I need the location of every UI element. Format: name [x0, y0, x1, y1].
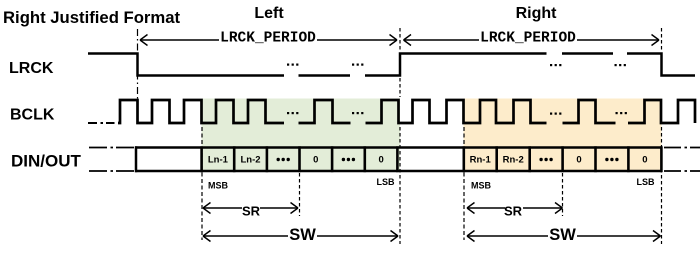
svg-text:0: 0	[313, 155, 318, 166]
svg-text:SR: SR	[242, 204, 261, 219]
svg-text:Rn-1: Rn-1	[470, 155, 492, 166]
svg-text:LSB: LSB	[637, 177, 656, 187]
svg-text:Rn-2: Rn-2	[503, 155, 524, 166]
svg-text:Right Justified Format: Right Justified Format	[3, 8, 181, 27]
svg-text:LRCK_PERIOD: LRCK_PERIOD	[220, 31, 316, 47]
svg-text:MSB: MSB	[208, 181, 229, 191]
svg-text:Ln-1: Ln-1	[208, 155, 229, 166]
svg-text:SR: SR	[504, 204, 523, 219]
svg-text:0: 0	[378, 155, 383, 166]
svg-text:Ln-2: Ln-2	[240, 155, 260, 166]
svg-text:Left: Left	[254, 5, 284, 22]
svg-text:0: 0	[576, 155, 581, 166]
svg-text:SW: SW	[289, 226, 316, 244]
svg-text:SW: SW	[549, 226, 576, 244]
svg-text:Right: Right	[516, 5, 558, 22]
svg-text:LRCK: LRCK	[9, 60, 54, 77]
svg-text:DIN/OUT: DIN/OUT	[11, 152, 82, 171]
svg-text:BCLK: BCLK	[10, 107, 55, 124]
svg-text:LRCK_PERIOD: LRCK_PERIOD	[480, 31, 576, 47]
svg-text:LSB: LSB	[377, 177, 396, 187]
svg-text:MSB: MSB	[471, 181, 492, 191]
svg-text:0: 0	[642, 155, 647, 166]
